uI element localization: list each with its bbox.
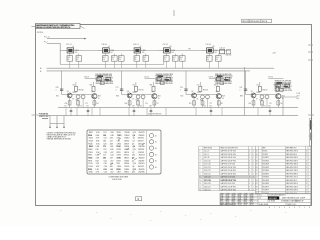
svg-text:3K: 3K (207, 59, 209, 61)
svg-text:B3: B3 (155, 148, 157, 150)
svg-text:COMPONENT SIDE VIEW: COMPONENT SIDE VIEW (109, 176, 129, 178)
svg-text:CR33: CR33 (116, 149, 120, 151)
component location box (87, 130, 161, 174)
svg-text:5: 5 (56, 90, 57, 92)
svg-text:C20: C20 (180, 87, 183, 89)
svg-text:Q4: Q4 (133, 134, 135, 137)
svg-text:C10: C10 (197, 84, 200, 86)
svg-text:17: 17 (256, 157, 258, 159)
svg-text:R10: R10 (68, 57, 71, 59)
svg-text:R25,R29: R25,R29 (263, 164, 270, 166)
svg-text:10: 10 (200, 180, 202, 182)
svg-text:C80 10: C80 10 (84, 76, 89, 78)
svg-text:27: 27 (256, 190, 258, 192)
svg-text:.042: .042 (110, 155, 113, 157)
svg-text:REV 93C238750 A SH 1: REV 93C238750 A SH 1 (242, 20, 261, 23)
wire P1-2 (47, 42, 60, 44)
svg-text:.012: .012 (110, 172, 113, 174)
svg-text:R20: R20 (181, 96, 184, 98)
svg-text:CR17: CR17 (117, 172, 121, 174)
svg-text:C40: C40 (268, 105, 271, 107)
filter network FL6 (220, 47, 232, 56)
svg-text:Q13: Q13 (132, 172, 135, 174)
connector pins (49, 116, 65, 129)
svg-text:C70: C70 (103, 146, 106, 148)
svg-text:R21: R21 (158, 96, 161, 98)
svg-text:C1,C3: C1,C3 (204, 151, 209, 153)
svg-text:R83: R83 (150, 84, 153, 86)
filter network FL1 (62, 44, 82, 68)
svg-text:C88: C88 (149, 105, 152, 107)
filter network FL2 (98, 44, 125, 68)
svg-text:R14: R14 (216, 57, 219, 59)
svg-text:R55,R59: R55,R59 (263, 180, 270, 182)
svg-text:8-27: 8-27 (250, 204, 253, 206)
svg-text:R29: R29 (222, 96, 225, 98)
svg-text:13: 13 (200, 190, 202, 192)
parts list left rows text (200, 150, 254, 192)
svg-text:Q8: Q8 (132, 157, 134, 159)
transistor outline column (149, 133, 153, 169)
svg-text:Q2: Q2 (132, 160, 134, 162)
svg-text:C9,C11: C9,C11 (204, 157, 210, 159)
svg-text:CR13: CR13 (75, 50, 79, 52)
svg-text:C64: C64 (104, 160, 107, 162)
svg-text:CR18: CR18 (142, 50, 146, 52)
svg-text:2N2902: 2N2902 (138, 152, 144, 154)
svg-text:1N915: 1N915 (124, 166, 129, 168)
svg-text:RES FXD 37K 5: RES FXD 37K 5 (286, 151, 298, 153)
inter-bus stubs (66, 108, 270, 116)
svg-text:C47: C47 (240, 87, 243, 89)
stub labels (64, 105, 271, 107)
component location table text (88, 132, 145, 173)
drawing border frame (36, 25, 312, 206)
svg-text:.012: .012 (109, 141, 112, 143)
svg-text:2N2922: 2N2922 (138, 166, 144, 168)
svg-text:.017: .017 (110, 157, 113, 159)
svg-text:RES FXD 14K 5: RES FXD 14K 5 (286, 186, 298, 188)
svg-text:1K: 1K (98, 98, 100, 100)
svg-text:C52: C52 (104, 138, 107, 140)
svg-text:600: 600 (297, 98, 300, 100)
svg-text:7: 7 (274, 207, 275, 209)
svg-text:5-59: 5-59 (238, 204, 241, 206)
svg-text:218: 218 (280, 103, 283, 105)
svg-text:C61 10: C61 10 (144, 76, 149, 78)
svg-text:R895: R895 (88, 155, 92, 157)
svg-text:2N2926: 2N2926 (138, 149, 144, 151)
svg-text:22: 22 (256, 173, 258, 175)
svg-text:CR34: CR34 (116, 145, 120, 148)
svg-text:C52: C52 (64, 105, 67, 107)
svg-text:12: 12 (200, 186, 202, 188)
svg-text:C80: C80 (103, 141, 106, 143)
parts list right rows text (256, 151, 307, 195)
svg-text:C79 10: C79 10 (268, 76, 273, 78)
svg-text:2N2158: 2N2158 (138, 146, 144, 148)
transistor Q2 (92, 94, 97, 99)
svg-text:D 31348: D 31348 (269, 201, 275, 203)
svg-text:2N404: 2N404 (72, 92, 76, 94)
svg-text:R84: R84 (90, 84, 93, 86)
svg-text:1K: 1K (103, 59, 105, 61)
svg-text:.029: .029 (110, 146, 113, 148)
svg-text:B4: B4 (155, 154, 157, 156)
svg-text:RES FXD 94K 5: RES FXD 94K 5 (286, 160, 298, 162)
svg-text:C13,C15: C13,C15 (204, 160, 211, 162)
svg-text:9K: 9K (72, 99, 74, 101)
svg-text:C30 10: C30 10 (209, 76, 214, 78)
svg-text:RES FXD 88K 5: RES FXD 88K 5 (286, 173, 298, 175)
vertical wire from P1-2 (59, 43, 61, 64)
margin tick marks (32, 10, 315, 115)
svg-text:2K: 2K (132, 99, 134, 101)
svg-text:R204: R204 (88, 134, 92, 137)
amplifier stage Q5/Q6 (180, 71, 232, 108)
svg-text:Q14: Q14 (132, 155, 135, 157)
svg-text:C16 .01: C16 .01 (133, 44, 139, 46)
svg-text:5820-401-35 ORDER THRU SIG OFF: 5820-401-35 ORDER THRU SIG OFFICER CH (36, 26, 71, 29)
svg-text:5-51: 5-51 (244, 204, 247, 206)
svg-text:R18: R18 (98, 96, 101, 98)
svg-text:1N914: 1N914 (124, 152, 129, 154)
svg-text:Q15: Q15 (132, 149, 135, 151)
svg-text:1N912: 1N912 (124, 157, 129, 159)
svg-text:R54: R54 (119, 57, 122, 59)
bus wire C (47, 70, 251, 72)
svg-text:R12: R12 (112, 57, 115, 59)
highlighted parts row band (199, 175, 255, 178)
svg-text:Q5: Q5 (191, 91, 193, 93)
svg-text:20: 20 (256, 167, 258, 169)
bus wire B (47, 67, 275, 69)
svg-text:C48: C48 (56, 87, 59, 89)
svg-text:2N2207: 2N2207 (139, 157, 145, 159)
svg-text:R378: R378 (88, 160, 92, 162)
svg-text:C91: C91 (86, 105, 89, 107)
svg-text:1K: 1K (144, 59, 146, 61)
transistor Q7 (251, 93, 256, 98)
svg-text:R64 6K: R64 6K (79, 90, 84, 92)
svg-text:NOTES:: NOTES: (37, 32, 44, 34)
svg-text:R19,R23: R19,R23 (263, 160, 270, 162)
svg-text:.037: .037 (110, 152, 113, 154)
svg-text:2N2317: 2N2317 (138, 141, 144, 143)
svg-text:CR32: CR32 (116, 155, 120, 157)
svg-text:2N2415: 2N2415 (139, 169, 145, 171)
svg-text:C17,C19: C17,C19 (204, 164, 211, 166)
svg-text:R249: R249 (89, 141, 93, 143)
svg-text:REF DESIG: REF DESIG (204, 148, 213, 150)
svg-text:Q5: Q5 (132, 143, 134, 145)
svg-text:.045: .045 (109, 166, 112, 168)
title block outline (220, 193, 311, 205)
svg-text:CR30: CR30 (110, 50, 114, 52)
svg-text:797: 797 (156, 103, 159, 105)
connector P2 cluster (39, 113, 50, 119)
svg-text:2N2513: 2N2513 (139, 155, 145, 157)
svg-text:900: 900 (110, 52, 113, 54)
svg-text:P1-1 J1: P1-1 J1 (44, 37, 50, 39)
svg-text:R49,R53: R49,R53 (263, 177, 270, 179)
svg-text:.068: .068 (109, 143, 112, 145)
svg-text:R13,R17: R13,R17 (263, 157, 270, 159)
svg-text:R36: R36 (65, 103, 68, 105)
svg-text:TOL: TOL (259, 194, 262, 196)
arrowhead (84, 38, 86, 40)
svg-text:R383: R383 (88, 149, 92, 151)
svg-text:SHEET 1 OF 1: SHEET 1 OF 1 (287, 204, 296, 206)
svg-text:100: 100 (75, 52, 78, 54)
output labels (297, 93, 300, 100)
output wire (281, 96, 298, 98)
svg-text:TP1: TP1 (188, 48, 191, 50)
svg-text:CR39: CR39 (116, 132, 120, 134)
svg-text:R29: R29 (164, 57, 167, 59)
svg-text:R895: R895 (89, 146, 93, 148)
svg-text:CR4: CR4 (214, 50, 217, 52)
svg-text:.028: .028 (110, 149, 113, 151)
svg-text:26: 26 (256, 186, 258, 188)
svg-text:3K: 3K (197, 99, 199, 101)
component location vertical divider (146, 130, 148, 174)
parts list table grid (199, 146, 311, 194)
svg-text:RES FXD 73K 5: RES FXD 73K 5 (286, 170, 298, 172)
svg-text:R54 6K: R54 6K (263, 90, 268, 92)
svg-text:R68: R68 (116, 96, 119, 98)
svg-text:7K: 7K (180, 59, 182, 61)
svg-text:R67,R71: R67,R71 (263, 186, 270, 188)
svg-text:.048: .048 (110, 169, 113, 171)
svg-text:8: 8 (269, 207, 270, 209)
svg-text:8: 8 (309, 207, 310, 209)
output drop wire (282, 97, 284, 116)
svg-text:1N919: 1N919 (124, 143, 129, 145)
svg-text:C34: C34 (103, 168, 106, 171)
svg-text:2N2287: 2N2287 (138, 160, 144, 162)
svg-text:C21,C23: C21,C23 (204, 167, 211, 169)
svg-text:R144: R144 (89, 166, 93, 168)
svg-text:C45,C47: C45,C47 (204, 186, 211, 188)
svg-text:R44 680: R44 680 (226, 55, 232, 57)
svg-text:C72: C72 (210, 103, 213, 105)
svg-text:R13: R13 (77, 57, 80, 59)
svg-text:5: 5 (284, 207, 285, 209)
svg-text:1K: 1K (164, 59, 166, 61)
component location diagonal marks (98, 138, 145, 165)
svg-text:100: 100 (171, 52, 174, 54)
svg-text:2N404: 2N404 (132, 92, 136, 94)
svg-text:C13: C13 (103, 149, 106, 151)
svg-text:4K: 4K (216, 59, 218, 61)
svg-text:C69: C69 (72, 84, 75, 86)
svg-text:C37,C39: C37,C39 (204, 180, 211, 182)
stage ground bus (58, 107, 298, 109)
svg-text:C49,C51: C49,C51 (204, 190, 211, 192)
svg-text:R43,R47: R43,R47 (263, 173, 270, 175)
svg-text:C20: C20 (104, 163, 107, 165)
svg-text:Q7: Q7 (133, 141, 135, 143)
svg-text:4: 4 (289, 207, 290, 209)
svg-text:RES FXD 82K 5: RES FXD 82K 5 (286, 183, 298, 185)
circle annotations (155, 135, 157, 169)
svg-text:C33,C35: C33,C35 (204, 177, 211, 179)
svg-text:R174: R174 (88, 163, 92, 165)
svg-text:5K: 5K (158, 98, 160, 100)
grid reference digits below frame (269, 207, 310, 209)
long vertical wire (244, 67, 246, 116)
svg-text:C38 .01: C38 .01 (102, 44, 108, 46)
svg-text:23: 23 (256, 177, 258, 179)
svg-text:1N911: 1N911 (124, 172, 129, 174)
svg-text:Q4: Q4 (133, 145, 135, 148)
svg-text:C35: C35 (104, 152, 107, 154)
svg-text:1N913: 1N913 (124, 138, 129, 140)
svg-text:R29: R29 (144, 57, 147, 59)
faint scan specks (60, 210, 286, 221)
svg-text:1N919: 1N919 (124, 169, 129, 171)
svg-text:R88: R88 (240, 96, 243, 98)
svg-text:C25,C27: C25,C27 (204, 170, 211, 172)
svg-text:C21 .01: C21 .01 (66, 44, 72, 46)
svg-text:RES FXD 18K 5: RES FXD 18K 5 (286, 164, 298, 166)
svg-text:P1-8: P1-8 (297, 93, 300, 95)
svg-text:2: 2 (299, 207, 300, 209)
svg-text:2N2576: 2N2576 (138, 138, 144, 140)
svg-text:RES FXD 6K 5: RES FXD 6K 5 (286, 180, 297, 182)
svg-text:RES FXD 97K 5: RES FXD 97K 5 (286, 167, 298, 169)
svg-text:1N914: 1N914 (124, 141, 129, 143)
wire P1-1 (47, 38, 86, 40)
svg-text:500: 500 (214, 52, 217, 54)
svg-text:R304: R304 (89, 138, 93, 140)
transistor Q3 (127, 93, 132, 98)
svg-text:6K: 6K (77, 59, 79, 61)
svg-text:R37,R41: R37,R41 (263, 170, 270, 172)
svg-text:R353: R353 (88, 152, 92, 154)
svg-text:C92: C92 (132, 84, 135, 86)
svg-text:GND RETURN BUS: GND RETURN BUS (148, 114, 162, 116)
svg-text:21: 21 (256, 170, 258, 172)
transistor Q6 (216, 94, 221, 99)
svg-text:1: 1 (304, 207, 305, 209)
svg-text:1N916: 1N916 (124, 160, 129, 162)
svg-text:R38: R38 (180, 57, 183, 59)
amplifier stage Q1/Q2 (56, 71, 113, 108)
svg-text:C41 .01: C41 .01 (220, 47, 226, 49)
svg-text:2N404: 2N404 (197, 92, 201, 94)
svg-text:Q6: Q6 (132, 166, 134, 168)
svg-text:4K: 4K (222, 98, 224, 100)
svg-text:2N2374: 2N2374 (139, 163, 145, 165)
svg-text:1N914: 1N914 (124, 155, 129, 157)
svg-text:CR28: CR28 (116, 169, 120, 171)
svg-text:700: 700 (142, 52, 145, 54)
svg-text:7K: 7K (112, 59, 114, 61)
svg-text:5K: 5K (256, 99, 258, 101)
svg-text:RES FXD 6K 5: RES FXD 6K 5 (286, 154, 297, 156)
svg-text:564: 564 (96, 103, 99, 105)
svg-text:C43: C43 (104, 166, 107, 168)
svg-text:Q1: Q1 (133, 138, 135, 140)
svg-text:25: 25 (256, 183, 258, 185)
svg-text:R43 5K: R43 5K (203, 90, 208, 92)
svg-text:C10 .01: C10 .01 (206, 44, 212, 46)
svg-text:Q7: Q7 (132, 152, 134, 154)
svg-text:3: 3 (294, 207, 295, 209)
filter network FL5 (202, 44, 222, 68)
title block inner row lines (220, 195, 258, 204)
signal chain wire (60, 49, 230, 51)
svg-text:R72: R72 (207, 57, 210, 59)
svg-text:R28: R28 (103, 57, 106, 59)
svg-text:R50 44K C98 368 CR20: R50 44K C98 368 CR20 (96, 83, 113, 85)
black drawing number label (268, 196, 279, 199)
svg-text:19: 19 (256, 164, 258, 166)
svg-text:R73,R77: R73,R77 (263, 190, 270, 192)
svg-text:RES FXD 81K 5: RES FXD 81K 5 (286, 157, 298, 159)
svg-text:C16: C16 (104, 172, 107, 174)
svg-text:CR33: CR33 (116, 160, 120, 162)
svg-text:R1,R5: R1,R5 (263, 151, 268, 153)
svg-text:C27: C27 (103, 155, 106, 157)
svg-text:3K: 3K (173, 59, 175, 61)
svg-text:R58: R58 (249, 103, 252, 105)
svg-text:6: 6 (279, 207, 280, 209)
svg-text:R31,R35: R31,R35 (263, 167, 270, 169)
svg-text:Q1: Q1 (67, 91, 69, 93)
svg-text:1N918: 1N918 (125, 132, 130, 134)
svg-text:B1: B1 (155, 135, 157, 137)
svg-text:C37 .01: C37 .01 (163, 44, 169, 46)
svg-text:REF: REF (263, 148, 266, 150)
svg-text:RES FXD 11K 5: RES FXD 11K 5 (286, 177, 298, 179)
transistor Q4 (152, 94, 157, 99)
svg-text:Q14: Q14 (133, 163, 136, 165)
stamp mark on bottom border (136, 197, 142, 201)
svg-text:C73: C73 (85, 103, 88, 105)
svg-text:R99: R99 (125, 103, 128, 105)
svg-text:2K: 2K (135, 59, 137, 61)
svg-text:16: 16 (256, 154, 258, 156)
bus A to FL4 stub (160, 61, 164, 64)
svg-text:18: 18 (256, 160, 258, 162)
svg-text:93C2387: 93C2387 (269, 198, 278, 200)
svg-text:Q12: Q12 (133, 132, 136, 134)
svg-text:R857: R857 (89, 132, 93, 134)
svg-text:2N2786: 2N2786 (138, 172, 144, 174)
svg-text:2N2473: 2N2473 (139, 132, 145, 134)
svg-text:2N2901: 2N2901 (139, 135, 145, 137)
svg-text:C26: C26 (103, 143, 106, 145)
svg-text:2N404: 2N404 (256, 92, 260, 94)
svg-text:.057: .057 (110, 160, 113, 162)
svg-text:529: 529 (221, 103, 224, 105)
revision label box above frame (242, 19, 272, 23)
svg-text:C13: C13 (103, 132, 106, 134)
svg-text:B5: B5 (155, 161, 157, 163)
svg-text:RES FXD 58K 5: RES FXD 58K 5 (286, 190, 298, 192)
svg-text:R11: R11 (189, 103, 192, 105)
svg-text:C29: C29 (269, 103, 272, 105)
svg-text:B2: B2 (155, 142, 157, 144)
svg-text:Q7: Q7 (251, 91, 253, 93)
transistor Q5 (192, 93, 197, 98)
svg-text:OUT: OUT (297, 96, 300, 98)
svg-text:P1-2: P1-2 (44, 42, 47, 44)
lower return bus (39, 115, 299, 117)
